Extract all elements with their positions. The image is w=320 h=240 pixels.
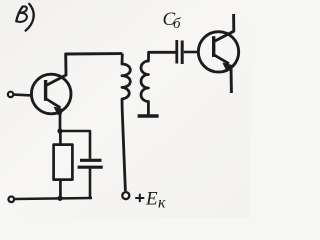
svg-text:к: к — [158, 195, 166, 212]
svg-text:E: E — [145, 189, 158, 210]
svg-text:б: б — [173, 16, 181, 32]
